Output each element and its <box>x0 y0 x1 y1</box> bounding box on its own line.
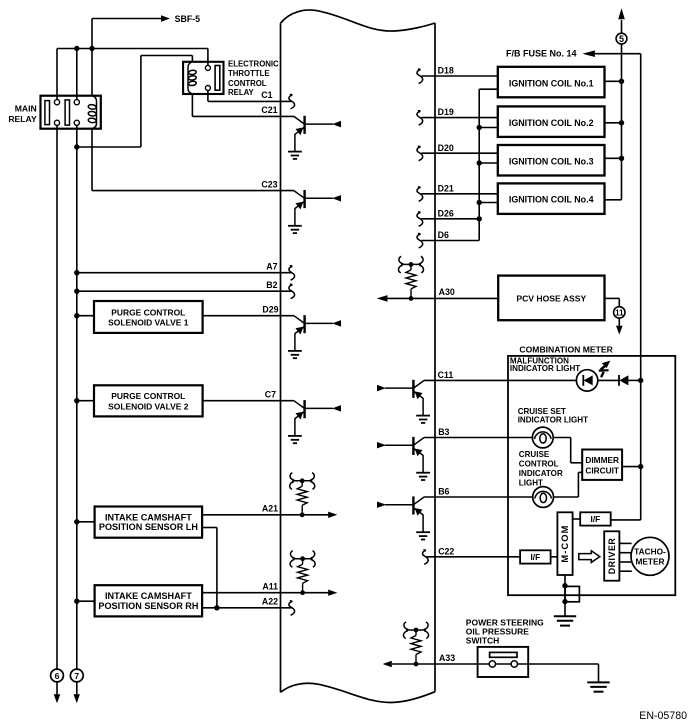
svg-text:C21: C21 <box>261 105 277 115</box>
svg-text:EN-05780: EN-05780 <box>639 710 687 722</box>
svg-text:A21: A21 <box>262 504 278 514</box>
svg-text:C22: C22 <box>438 546 454 556</box>
svg-text:DRIVER: DRIVER <box>607 538 617 575</box>
svg-text:DIMMER: DIMMER <box>585 455 619 465</box>
svg-text:C23: C23 <box>261 179 277 189</box>
svg-text:D26: D26 <box>438 208 454 218</box>
svg-text:A33: A33 <box>439 653 455 663</box>
svg-text:SWITCH: SWITCH <box>466 635 500 645</box>
svg-text:INTAKE CAMSHAFT: INTAKE CAMSHAFT <box>105 512 192 522</box>
svg-text:C7: C7 <box>265 390 276 400</box>
svg-text:I/F: I/F <box>530 552 540 562</box>
svg-text:INDICATOR LIGHT: INDICATOR LIGHT <box>518 416 588 425</box>
svg-text:IGNITION COIL No.2: IGNITION COIL No.2 <box>509 118 594 128</box>
svg-text:D19: D19 <box>438 107 454 117</box>
svg-text:D29: D29 <box>262 305 278 315</box>
svg-text:IGNITION COIL No.4: IGNITION COIL No.4 <box>509 195 594 205</box>
svg-text:INDICATOR: INDICATOR <box>519 469 563 478</box>
svg-text:CRUISE: CRUISE <box>519 450 550 459</box>
svg-text:CIRCUIT: CIRCUIT <box>585 466 619 476</box>
svg-text:THROTTLE: THROTTLE <box>228 69 270 78</box>
svg-text:RELAY: RELAY <box>8 114 37 124</box>
svg-text:SOLENOID VALVE 1: SOLENOID VALVE 1 <box>108 318 189 328</box>
svg-text:B6: B6 <box>438 487 449 497</box>
svg-text:METER: METER <box>635 556 664 566</box>
svg-text:F/B FUSE No. 14: F/B FUSE No. 14 <box>506 49 577 59</box>
svg-text:LIGHT: LIGHT <box>519 479 543 488</box>
svg-text:PURGE CONTROL: PURGE CONTROL <box>111 307 185 317</box>
svg-text:A22: A22 <box>262 597 278 607</box>
svg-text:SBF-5: SBF-5 <box>175 14 201 24</box>
svg-text:D6: D6 <box>438 230 449 240</box>
svg-text:PURGE CONTROL: PURGE CONTROL <box>111 391 185 401</box>
svg-text:SOLENOID VALVE 2: SOLENOID VALVE 2 <box>108 402 189 412</box>
svg-text:CRUISE SET: CRUISE SET <box>518 407 566 416</box>
svg-text:IGNITION COIL No.1: IGNITION COIL No.1 <box>509 79 594 89</box>
svg-text:IGNITION COIL No.3: IGNITION COIL No.3 <box>509 157 594 167</box>
svg-text:CONTROL: CONTROL <box>228 79 267 88</box>
svg-text:ELECTRONIC: ELECTRONIC <box>228 59 279 68</box>
svg-text:D20: D20 <box>438 143 454 153</box>
svg-text:RELAY: RELAY <box>228 88 255 97</box>
svg-text:POSITION SENSOR RH: POSITION SENSOR RH <box>98 601 198 611</box>
svg-text:D21: D21 <box>438 183 454 193</box>
svg-text:A30: A30 <box>439 287 455 297</box>
svg-text:TACHO-: TACHO- <box>634 546 666 556</box>
svg-text:A7: A7 <box>266 262 277 272</box>
svg-text:INTAKE CAMSHAFT: INTAKE CAMSHAFT <box>105 591 192 601</box>
svg-text:A11: A11 <box>262 582 278 592</box>
svg-text:5: 5 <box>619 34 624 44</box>
svg-text:B3: B3 <box>438 427 449 437</box>
svg-text:POSITION SENSOR LH: POSITION SENSOR LH <box>99 522 198 532</box>
svg-text:COMBINATION METER: COMBINATION METER <box>519 344 613 354</box>
svg-text:B2: B2 <box>266 280 277 290</box>
svg-text:C1: C1 <box>261 90 272 100</box>
svg-text:D18: D18 <box>438 66 454 76</box>
svg-text:M-COM: M-COM <box>560 525 570 563</box>
svg-text:INDICATOR LIGHT: INDICATOR LIGHT <box>510 364 580 373</box>
svg-text:6: 6 <box>55 671 60 681</box>
svg-text:C11: C11 <box>438 370 454 380</box>
svg-text:7: 7 <box>74 671 79 681</box>
svg-text:MAIN: MAIN <box>15 103 37 113</box>
svg-text:CONTROL: CONTROL <box>519 460 559 469</box>
svg-text:PCV HOSE ASSY: PCV HOSE ASSY <box>516 293 586 303</box>
svg-text:I/F: I/F <box>591 514 601 524</box>
svg-text:11: 11 <box>615 308 624 317</box>
